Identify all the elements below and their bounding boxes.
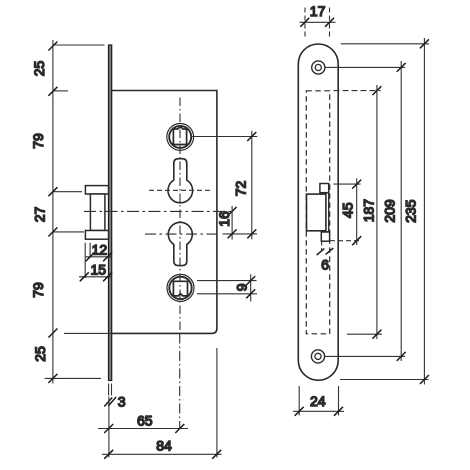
svg-text:65: 65 bbox=[137, 413, 153, 429]
svg-text:3: 3 bbox=[118, 394, 126, 410]
svg-text:79: 79 bbox=[30, 282, 46, 298]
svg-text:27: 27 bbox=[32, 207, 48, 223]
svg-text:16: 16 bbox=[216, 211, 232, 227]
svg-text:84: 84 bbox=[156, 437, 172, 453]
svg-text:187: 187 bbox=[360, 199, 376, 223]
svg-text:6: 6 bbox=[321, 256, 329, 272]
svg-text:25: 25 bbox=[31, 61, 47, 77]
svg-text:17: 17 bbox=[310, 3, 326, 19]
svg-text:209: 209 bbox=[382, 199, 398, 223]
svg-text:9: 9 bbox=[233, 283, 249, 291]
svg-text:15: 15 bbox=[91, 262, 107, 278]
svg-text:235: 235 bbox=[402, 199, 418, 223]
svg-text:45: 45 bbox=[339, 202, 355, 218]
svg-text:79: 79 bbox=[30, 133, 46, 149]
svg-text:24: 24 bbox=[310, 393, 326, 409]
svg-text:25: 25 bbox=[32, 346, 48, 362]
svg-text:12: 12 bbox=[92, 242, 108, 258]
svg-text:72: 72 bbox=[233, 181, 249, 197]
